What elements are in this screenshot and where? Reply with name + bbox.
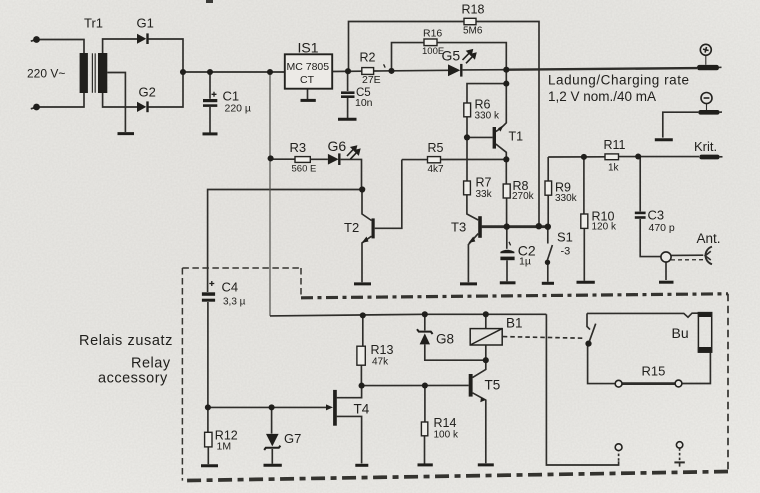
- svg-text:100 k: 100 k: [434, 430, 459, 441]
- svg-text:Ladung/Charging rate: Ladung/Charging rate: [548, 73, 690, 88]
- svg-text:5M6: 5M6: [463, 26, 483, 37]
- svg-text:C3: C3: [648, 208, 665, 223]
- svg-text:Krit.: Krit.: [694, 139, 717, 154]
- svg-text:10n: 10n: [355, 97, 373, 109]
- svg-text:CT: CT: [300, 74, 315, 86]
- svg-text:330 k: 330 k: [475, 111, 500, 122]
- svg-text:T2: T2: [344, 220, 359, 235]
- svg-text:B1: B1: [506, 316, 523, 331]
- svg-text:R7: R7: [476, 176, 492, 190]
- svg-text:1M: 1M: [217, 441, 232, 453]
- svg-text:R15: R15: [642, 364, 666, 379]
- svg-text:Relay: Relay: [131, 356, 171, 372]
- svg-text:1µ: 1µ: [519, 256, 531, 268]
- svg-text:Tr1: Tr1: [84, 16, 103, 31]
- svg-text:G8: G8: [436, 332, 454, 347]
- svg-text:560 E: 560 E: [292, 164, 317, 175]
- svg-text:R16: R16: [423, 28, 442, 40]
- svg-text:S1: S1: [557, 230, 573, 245]
- svg-text:R2: R2: [360, 51, 376, 65]
- svg-text:4k7: 4k7: [428, 164, 445, 175]
- svg-text:G5: G5: [442, 48, 461, 64]
- svg-text:R6: R6: [475, 98, 491, 112]
- svg-text:T4: T4: [354, 402, 370, 417]
- svg-text:27E: 27E: [362, 74, 381, 86]
- svg-text:G2: G2: [139, 85, 156, 100]
- svg-text:Relais zusatz: Relais zusatz: [79, 333, 173, 349]
- svg-text:MC 7805: MC 7805: [286, 61, 329, 73]
- svg-text:47k: 47k: [372, 357, 389, 368]
- svg-text:C1: C1: [223, 89, 240, 104]
- svg-text:1k: 1k: [608, 163, 620, 174]
- svg-text:G7: G7: [284, 431, 301, 446]
- svg-text:470 p: 470 p: [649, 222, 675, 234]
- svg-text:3,3 µ: 3,3 µ: [223, 297, 246, 308]
- svg-text:330k: 330k: [555, 193, 578, 204]
- svg-text:C4: C4: [222, 280, 239, 295]
- svg-text:33k: 33k: [476, 189, 493, 200]
- svg-text:G1: G1: [137, 16, 154, 31]
- svg-text:220 V~: 220 V~: [27, 67, 65, 81]
- svg-text:T1: T1: [509, 130, 524, 144]
- svg-text:120 k: 120 k: [592, 222, 617, 233]
- svg-text:G6: G6: [328, 138, 347, 154]
- svg-text:Bu: Bu: [672, 325, 689, 341]
- svg-text:R11: R11: [604, 138, 626, 152]
- svg-text:Ant.: Ant.: [697, 231, 721, 246]
- svg-text:IS1: IS1: [298, 40, 319, 56]
- svg-text:R18: R18: [462, 3, 485, 17]
- svg-text:270k: 270k: [512, 191, 535, 202]
- svg-text:220 µ: 220 µ: [225, 103, 252, 115]
- svg-text:accessory: accessory: [98, 371, 168, 387]
- svg-text:R5: R5: [428, 141, 444, 155]
- svg-text:T5: T5: [485, 378, 501, 393]
- svg-text:R3: R3: [290, 140, 307, 155]
- svg-text:1,2 V nom./40 mA: 1,2 V nom./40 mA: [548, 89, 656, 104]
- svg-text:R13: R13: [371, 343, 394, 357]
- svg-text:R14: R14: [434, 416, 457, 430]
- svg-text:T3: T3: [451, 220, 466, 235]
- svg-text:-3: -3: [561, 246, 571, 258]
